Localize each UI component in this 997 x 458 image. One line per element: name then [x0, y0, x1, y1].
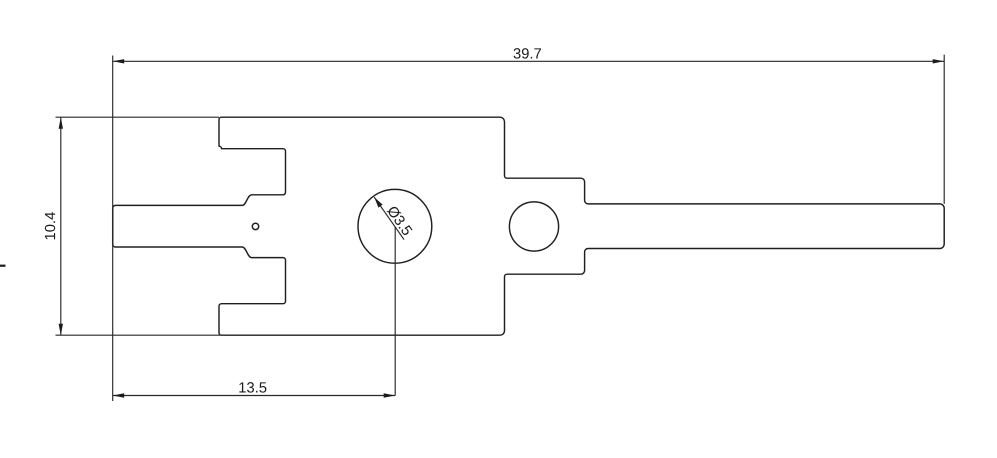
hole D3.5 (large circle) [358, 189, 432, 263]
stray tick at left margin [0, 265, 6, 267]
arrowhead 13.5 right [384, 393, 396, 397]
dim text 39.7 [514, 48, 542, 58]
extension line top edge (10.4) [56, 116, 220, 118]
dimension line 13.5 [113, 395, 396, 397]
extension line bottom edge (10.4) [56, 334, 221, 336]
dim text 10.4 (rotated) [45, 212, 55, 239]
extension line right end of tab (x=944.2) [943, 55, 945, 204]
arrowhead 13.5 left [113, 393, 125, 397]
extension line left datum (x=112.7) [112, 56, 114, 402]
arrowhead D3.5 leader [374, 197, 382, 208]
dim text 13.5 [239, 382, 266, 392]
dimension line 10.4 [60, 117, 62, 335]
dim text D3.5 (rotated along leader) [386, 205, 413, 237]
arrowhead 10.4 bottom [59, 324, 63, 336]
leader diagonal D3.5 [374, 197, 404, 240]
hole (middle circle on neck) [509, 202, 558, 251]
small pilot hole [252, 223, 258, 229]
arrowhead 10.4 top [59, 117, 63, 129]
dimension line 39.7 [113, 60, 945, 62]
arrowhead 39.7 left [113, 59, 125, 63]
arrowhead 39.7 right [933, 59, 945, 63]
part outline [113, 117, 945, 335]
leader center line from hole D3.5 [394, 227, 396, 396]
